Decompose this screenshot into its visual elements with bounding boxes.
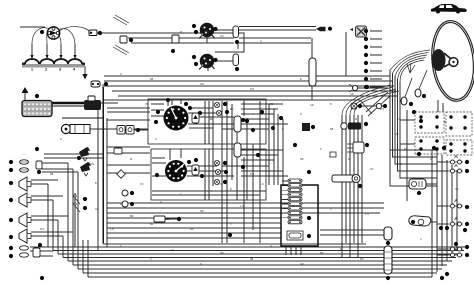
- svg-text:R.N: R.N: [40, 228, 44, 231]
- svg-text:VN: VN: [455, 188, 459, 191]
- svg-text:N: N: [282, 128, 284, 131]
- svg-text:M: M: [355, 118, 357, 121]
- svg-text:GR: GR: [95, 208, 99, 211]
- svg-text:R.N: R.N: [90, 163, 94, 166]
- svg-text:GR: GR: [200, 83, 204, 86]
- svg-text:N: N: [300, 113, 302, 116]
- svg-text:L.N: L.N: [365, 213, 369, 216]
- svg-text:C: C: [330, 208, 332, 211]
- svg-text:BR: BR: [130, 215, 134, 218]
- svg-text:HR: HR: [200, 210, 204, 213]
- svg-text:BR: BR: [320, 252, 324, 255]
- svg-text:G: G: [155, 138, 157, 141]
- svg-text:RN: RN: [404, 148, 408, 151]
- svg-text:GR: GR: [300, 263, 304, 266]
- svg-text:RN: RN: [360, 258, 364, 261]
- svg-text:SB: SB: [50, 173, 54, 176]
- svg-text:R.N: R.N: [250, 173, 254, 176]
- svg-text:C: C: [180, 193, 182, 196]
- svg-text:SB: SB: [150, 78, 154, 81]
- svg-text:M: M: [430, 158, 432, 161]
- svg-text:M: M: [348, 158, 350, 161]
- svg-text:RN: RN: [230, 108, 234, 111]
- svg-text:BR: BR: [210, 118, 214, 121]
- svg-text:L.N: L.N: [260, 183, 264, 186]
- svg-text:R.N: R.N: [380, 108, 384, 111]
- svg-text:L.N: L.N: [240, 205, 244, 208]
- svg-text:SB: SB: [250, 258, 254, 261]
- svg-text:HR: HR: [145, 103, 149, 106]
- svg-text:G: G: [270, 245, 272, 248]
- svg-text:N: N: [120, 73, 122, 76]
- svg-text:SB: SB: [270, 103, 274, 106]
- svg-text:VN: VN: [395, 133, 399, 136]
- svg-text:G: G: [120, 203, 122, 206]
- svg-text:VN: VN: [220, 35, 224, 38]
- svg-text:HR: HR: [220, 252, 224, 255]
- svg-text:HR: HR: [300, 158, 304, 161]
- svg-text:G: G: [160, 201, 162, 204]
- svg-text:VN: VN: [140, 183, 144, 186]
- svg-text:L.N: L.N: [170, 249, 174, 252]
- svg-text:M: M: [130, 158, 132, 161]
- svg-text:C: C: [260, 40, 262, 43]
- svg-text:BR: BR: [150, 223, 154, 226]
- svg-text:SB: SB: [330, 128, 334, 131]
- svg-text:N: N: [200, 263, 202, 266]
- svg-text:GR: GR: [310, 104, 314, 107]
- svg-text:GR: GR: [350, 93, 354, 96]
- svg-text:L.N: L.N: [110, 228, 114, 231]
- svg-text:R.N: R.N: [250, 88, 254, 91]
- svg-text:RN: RN: [190, 228, 194, 231]
- svg-text:C: C: [420, 238, 422, 241]
- svg-text:N: N: [60, 138, 62, 141]
- svg-text:C: C: [415, 153, 417, 156]
- svg-text:VN: VN: [370, 168, 374, 171]
- svg-text:M: M: [180, 31, 182, 34]
